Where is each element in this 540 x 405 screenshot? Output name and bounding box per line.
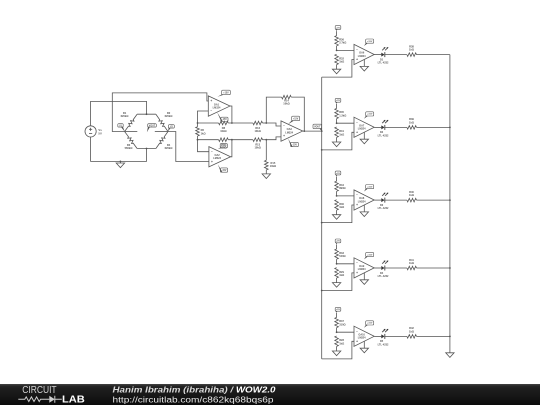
resistor R6 1k between node A and node B	[197, 123, 199, 127]
node flag VOUT at OA3 output	[313, 124, 322, 128]
resistor R31 1kΩ (divider bottom, stage 2)	[335, 127, 339, 137]
op-amp OA9 LM324 (comparator stage 4)	[354, 258, 374, 278]
resistor R36 2.7kΩ (divider top, stage 1)	[336, 31, 338, 35]
svg-text:1kΩ: 1kΩ	[201, 131, 206, 135]
resistor R4 (bridge bottom-right)	[156, 132, 168, 149]
resistor R13 10k on bottom rail	[253, 138, 263, 142]
resistor R3 (bridge bottom-left)	[125, 132, 138, 149]
svg-text:LTL-4232: LTL-4232	[378, 134, 389, 137]
svg-text:+: +	[210, 99, 212, 103]
ground below comparator stage 2	[363, 132, 365, 139]
svg-text:LM324: LM324	[358, 268, 366, 271]
power flag +5V stage 4	[335, 239, 341, 243]
svg-text:1kΩ: 1kΩ	[339, 132, 344, 136]
wire OA2 - input to node B	[198, 140, 209, 152]
wire comparator + input to VOUT rail, stage 5	[322, 341, 354, 359]
svg-text:540Ω: 540Ω	[339, 254, 345, 258]
wire OA1 - input to node A	[198, 111, 209, 123]
svg-text:1kΩ: 1kΩ	[409, 193, 414, 197]
svg-text:+5V: +5V	[336, 173, 340, 175]
resistor R8 10k on top rail	[198, 122, 219, 124]
resistor R35 1.2kΩ (divider top, stage 2)	[336, 104, 338, 109]
svg-text:LTL-4232: LTL-4232	[378, 275, 389, 278]
svg-text:VOUT: VOUT	[149, 125, 156, 127]
svg-text:+: +	[356, 130, 358, 134]
svg-text:LTL-4232: LTL-4232	[378, 207, 389, 210]
svg-text:+15V: +15V	[223, 92, 229, 94]
svg-text:620kΩ: 620kΩ	[121, 114, 129, 118]
svg-text:10kΩ: 10kΩ	[254, 129, 260, 133]
svg-text:1kΩ: 1kΩ	[409, 261, 414, 265]
ground at bottom wire	[119, 161, 121, 163]
svg-text:CIRCUIT: CIRCUIT	[22, 385, 56, 396]
wire bridge bottom segment	[137, 148, 156, 150]
svg-text:+15V: +15V	[367, 41, 373, 43]
power flag +5V stage 2	[335, 98, 341, 102]
svg-text:+5V: +5V	[336, 309, 340, 311]
LED D1 LTL-4232	[374, 54, 381, 56]
ground below comparator stage 3	[363, 205, 365, 212]
svg-text:890Ω: 890Ω	[339, 186, 345, 190]
svg-text:1kΩ: 1kΩ	[409, 329, 414, 333]
svg-text:620kΩ: 620kΩ	[165, 146, 173, 150]
ground below comparator stage 4	[363, 273, 365, 280]
svg-text:10kΩ: 10kΩ	[254, 146, 260, 150]
power flag +5V stage 5	[335, 307, 341, 311]
resistor R42 1kΩ (output, stage 5)	[385, 335, 407, 337]
power flag -15V for OA1	[221, 117, 228, 121]
svg-text:Hanim Ibrahim (ibrahiha) / WOW: Hanim Ibrahim (ibrahiha) / WOW2.0	[113, 385, 277, 394]
svg-text:LM324: LM324	[358, 337, 366, 340]
svg-text:VOUT: VOUT	[314, 126, 321, 128]
svg-text:1kΩ: 1kΩ	[409, 48, 414, 52]
wire comparator + input to VOUT rail, stage 3	[322, 205, 354, 223]
svg-text:+15V: +15V	[367, 114, 373, 116]
resistor R29 1kΩ (divider bottom, stage 4)	[335, 268, 339, 278]
svg-text:+5V: +5V	[336, 100, 340, 102]
power flag +15V for OA1	[222, 90, 231, 95]
ground below divider stage 5	[332, 351, 340, 356]
resistor R12 10k on top rail	[253, 121, 263, 125]
svg-text:+15V: +15V	[367, 323, 373, 325]
feedback resistor R14 10k	[266, 97, 281, 123]
svg-text:+: +	[356, 339, 358, 343]
node flag V1	[118, 124, 123, 127]
power flag +15V stage 3	[366, 185, 374, 189]
svg-text:1kΩ: 1kΩ	[339, 273, 344, 277]
svg-text:1kΩ: 1kΩ	[339, 341, 344, 345]
wire OA3 output to VOUT rail	[303, 130, 322, 132]
svg-text:LTL-4232: LTL-4232	[378, 62, 389, 65]
resistor R28 1kΩ (divider bottom, stage 5)	[335, 336, 339, 346]
resistor R15 10k to ground	[265, 140, 267, 161]
resistor R2 (bridge top-right)	[156, 114, 168, 131]
ground below divider stage 2	[332, 142, 340, 147]
LED D5 LTL-4232	[374, 335, 381, 337]
LED D2 LTL-4232	[374, 126, 381, 128]
ground at right rail bottom	[446, 353, 454, 358]
op-amp OA10 LM324 (comparator stage 5)	[354, 326, 374, 346]
svg-text:−: −	[356, 48, 358, 52]
svg-text:−: −	[356, 261, 358, 265]
op-amp OA6 LM324 (comparator stage 1)	[354, 44, 374, 64]
CircuitLab logo resistor symbol	[18, 396, 62, 403]
LED D3 LTL-4232	[374, 199, 381, 201]
svg-text:+15V: +15V	[367, 254, 373, 256]
wire bridge centre stub right	[155, 131, 168, 133]
wire divider node to comparator - input, stage 1	[336, 50, 338, 52]
resistor R39 1kΩ (output, stage 2)	[385, 126, 407, 128]
svg-text:620kΩ: 620kΩ	[165, 114, 173, 118]
resistor R40 1kΩ (output, stage 3)	[385, 199, 407, 201]
svg-text:LTL-4232: LTL-4232	[378, 343, 389, 346]
power flag +15V stage 5	[366, 321, 374, 325]
wire bottom rail to OA3 + input	[266, 137, 281, 140]
power flag +15V for OA2	[220, 144, 227, 148]
power flag +5V stage 3	[335, 171, 341, 175]
ground below divider stage 3	[332, 215, 340, 220]
svg-text:+: +	[356, 271, 358, 275]
wire divider node to comparator - input, stage 4	[336, 263, 338, 265]
wire OA1 output down to top rail	[230, 106, 232, 123]
op-amp OA2 LM324	[209, 147, 231, 167]
svg-text:LM324: LM324	[358, 55, 366, 58]
ground below comparator stage 5	[363, 341, 365, 348]
svg-text:10kΩ: 10kΩ	[220, 146, 226, 150]
resistor R34 890Ω (divider top, stage 3)	[336, 177, 338, 182]
svg-text:+: +	[356, 203, 358, 207]
svg-text:LM324: LM324	[213, 157, 221, 160]
svg-text:-15V: -15V	[292, 144, 297, 146]
svg-text:LM324: LM324	[213, 106, 221, 109]
svg-text:−: −	[210, 109, 212, 113]
ground below divider stage 1	[332, 69, 340, 74]
ground below divider stage 4	[332, 283, 340, 288]
wire divider node to comparator - input, stage 2	[336, 122, 338, 124]
svg-text:+5V: +5V	[336, 241, 340, 243]
wire comparator + input to VOUT rail, stage 4	[322, 273, 354, 291]
wire source bottom to bridge bottom	[91, 137, 147, 161]
power flag +15V for OA3	[292, 116, 300, 121]
svg-text:LM324: LM324	[358, 128, 366, 131]
power flag +15V stage 4	[366, 252, 374, 256]
svg-text:10kΩ: 10kΩ	[220, 129, 226, 133]
wire bridge right node to OA2 + input	[168, 132, 209, 162]
resistor R10 10k on bottom rail	[198, 139, 219, 141]
resistor R38 1kΩ (output, stage 1)	[385, 54, 407, 56]
op-amp OA1 LM324	[208, 96, 230, 116]
svg-text:1kΩ: 1kΩ	[339, 60, 344, 64]
svg-text:+5V: +5V	[336, 27, 340, 29]
node flag VOUT (bridge)	[148, 124, 157, 127]
CircuitLab logo diode symbol	[49, 396, 55, 403]
svg-text:−: −	[211, 150, 213, 154]
wire top rail to OA3 - input	[266, 123, 281, 126]
wire OA2 output up to bottom rail	[231, 140, 232, 157]
svg-text:2.7kΩ: 2.7kΩ	[339, 41, 346, 45]
svg-text:1kΩ: 1kΩ	[409, 120, 414, 124]
power flag -15V for OA2	[220, 168, 227, 172]
wire divider node to comparator - input, stage 5	[336, 331, 338, 333]
resistor R32 1kΩ (divider bottom, stage 1)	[335, 54, 339, 64]
resistor R41 1kΩ (output, stage 4)	[385, 267, 407, 269]
wire comparator + input to VOUT rail, stage 2	[322, 132, 354, 150]
svg-text:10kΩ: 10kΩ	[283, 102, 289, 106]
svg-text:1kΩ: 1kΩ	[339, 205, 344, 209]
svg-text:−: −	[356, 120, 358, 124]
svg-text:310Ω: 310Ω	[339, 322, 345, 326]
svg-text:−: −	[356, 193, 358, 197]
op-amp OA3 LM324	[281, 121, 303, 141]
resistor R30 1kΩ (divider bottom, stage 3)	[335, 200, 339, 210]
svg-text:5V: 5V	[98, 131, 102, 135]
LED D4 LTL-4232	[374, 267, 381, 269]
svg-text:http://circuitlab.com/c862kq68: http://circuitlab.com/c862kq68bqs6p	[113, 395, 275, 404]
ground below R15	[262, 174, 270, 179]
svg-text:+: +	[283, 134, 285, 138]
voltage source V1 5V	[85, 126, 96, 137]
op-amp OA7 LM324 (comparator stage 2)	[354, 117, 374, 137]
node flag V2	[168, 125, 174, 128]
power flag -15V for OA3	[291, 142, 299, 146]
ground below comparator stage 1	[363, 60, 365, 67]
svg-text:LM324: LM324	[285, 131, 293, 134]
wire divider node to comparator - input, stage 3	[336, 195, 338, 197]
power flag +5V stage 1	[335, 26, 341, 30]
svg-text:-15V: -15V	[222, 170, 227, 172]
right rail	[449, 55, 451, 353]
power flag +15V stage 2	[366, 112, 374, 116]
resistor R37 310Ω (divider top, stage 5)	[336, 313, 338, 318]
svg-text:-15V: -15V	[222, 119, 227, 121]
wire bridge top segment	[137, 113, 156, 115]
power flag +15V stage 1	[366, 39, 374, 43]
resistor R1 (bridge top-left)	[125, 114, 138, 131]
wire bridge left node to OA1 + input	[112, 93, 208, 132]
wire source top to bridge top	[91, 101, 147, 125]
wire bridge centre stub left	[125, 131, 138, 133]
svg-text:+: +	[211, 160, 213, 164]
svg-text:10kΩ: 10kΩ	[270, 164, 276, 168]
svg-text:+15V: +15V	[293, 118, 299, 120]
svg-text:−: −	[283, 124, 285, 128]
left VOUT rail	[321, 77, 323, 359]
svg-text:LM324: LM324	[358, 200, 366, 203]
svg-text:560kΩ: 560kΩ	[125, 146, 133, 150]
op-amp OA8 LM324 (comparator stage 3)	[354, 190, 374, 210]
resistor R33 540Ω (divider top, stage 4)	[336, 245, 338, 250]
svg-text:+: +	[356, 58, 358, 62]
svg-text:+15V: +15V	[367, 186, 373, 188]
svg-text:LAB: LAB	[62, 395, 85, 405]
svg-text:1.2kΩ: 1.2kΩ	[339, 113, 346, 117]
wire comparator + input to VOUT rail, stage 1	[322, 60, 354, 78]
